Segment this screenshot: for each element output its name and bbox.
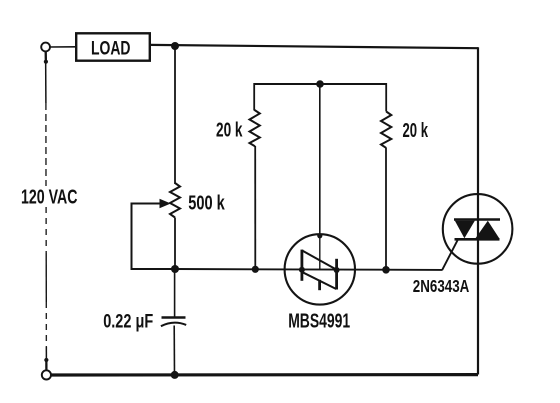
node: junction dot left 20k bottom <box>252 266 259 273</box>
wire: left vertical (dashed lower) <box>45 302 47 347</box>
capacitor C1 top plate <box>162 316 186 318</box>
node: junction dot at gate takeoff <box>316 80 324 88</box>
resistor R3 20k (right) zigzag <box>381 112 391 148</box>
wire: main vertical x=175 from top wire to potentiometer <box>174 46 176 184</box>
MBS4991 left cathode bar <box>300 250 303 281</box>
triac right triangle (pointing up) <box>476 221 500 239</box>
triac top bar <box>454 218 500 221</box>
wire: left vertical (upper solid part) <box>45 52 47 104</box>
node: junction dot right 20k bottom <box>382 266 390 274</box>
wire: triac gate diagonal <box>442 239 458 271</box>
MBS4991 upper triangle hypotenuse <box>302 250 336 269</box>
wire: right 20k bottom lead <box>385 148 387 270</box>
resistor R2 20k (left) zigzag <box>250 110 260 146</box>
node: bold crossing dot right bar on mid wire <box>334 267 340 273</box>
wire: gate vertical from junction down to MBS circle <box>319 84 321 236</box>
wire: below potentiometer down to mid junction <box>174 218 176 270</box>
wire: gate line inside MBS circle <box>319 236 321 270</box>
wire: bottom horizontal <box>46 373 478 377</box>
terminal: bottom-left open circle <box>42 370 51 379</box>
node: small dot where gate wire meets MBS circle <box>317 233 322 238</box>
wire: LOAD box to top-right corner <box>150 45 478 48</box>
LOAD box <box>76 33 150 60</box>
wire: left vertical (solid bottom) <box>45 347 47 371</box>
svg-text:500 k: 500 k <box>188 191 225 214</box>
wire: left 20k top lead <box>253 83 255 111</box>
wire: vertical below mid junction to capacitor <box>174 269 176 317</box>
MBS4991 right cathode bar <box>335 259 338 290</box>
wire: left vertical (faded dashed part above label) <box>45 103 47 186</box>
potentiometer R1 500k zigzag body <box>170 183 180 218</box>
wire: short stub from dot to bottom terminal <box>45 360 47 371</box>
node: junction dot at bottom wire <box>171 371 179 379</box>
svg-text:20 k: 20 k <box>216 119 243 141</box>
wire: wiper bottom leg to mid junction <box>131 268 176 270</box>
MBS4991 lower triangle hypotenuse <box>302 272 336 289</box>
svg-text:0.22 μF: 0.22 μF <box>103 311 153 333</box>
diac U1 MBS4991 bilateral switch device circle <box>285 234 355 304</box>
triac bottom bar <box>455 238 500 241</box>
terminal: top-left open circle <box>41 43 50 52</box>
svg-text:LOAD: LOAD <box>91 38 131 60</box>
wire: right vertical from top corner down to bottom corner <box>477 47 479 374</box>
MBS4991 middle lower bar <box>318 280 321 290</box>
wire: left vertical (solid mid-lower) <box>45 253 47 302</box>
wire: left 20k bottom lead <box>254 146 256 269</box>
wire: below capacitor to bottom wire <box>173 326 175 376</box>
triac left triangle (pointing down) <box>455 221 475 239</box>
potentiometer wiper arrowhead <box>160 199 171 208</box>
node: small mark above bottom-left terminal <box>44 358 48 362</box>
svg-text:MBS4991: MBS4991 <box>288 310 350 332</box>
wire: top-left terminal to LOAD box <box>50 46 76 48</box>
svg-text:20 k: 20 k <box>403 120 429 142</box>
svg-text:2N6343A: 2N6343A <box>413 276 470 296</box>
capacitor C1 curved bottom plate <box>161 323 186 327</box>
node: small dot below top-left terminal <box>44 60 48 64</box>
svg-text:120 VAC: 120 VAC <box>21 186 78 209</box>
node: bold crossing dot left bar on mid wire <box>299 267 305 273</box>
wire: wiper down leg <box>131 203 133 271</box>
node: junction dot at LOAD output on top wire <box>171 42 179 50</box>
transistor Q1: triac 2N6343A circle <box>443 194 513 264</box>
wire: right 20k top lead <box>385 83 387 112</box>
wire: left vertical (dashed below label) <box>45 207 47 253</box>
potentiometer wiper arrow line <box>132 203 163 205</box>
wire: mid horizontal from junction through MBS to triac gate <box>175 268 442 271</box>
node: junction dot at pot/cap/mid wire <box>171 265 179 273</box>
wire: short stub from top terminal to dot <box>45 51 48 62</box>
wire: upper horizontal between the two 20k resistors <box>254 83 386 85</box>
